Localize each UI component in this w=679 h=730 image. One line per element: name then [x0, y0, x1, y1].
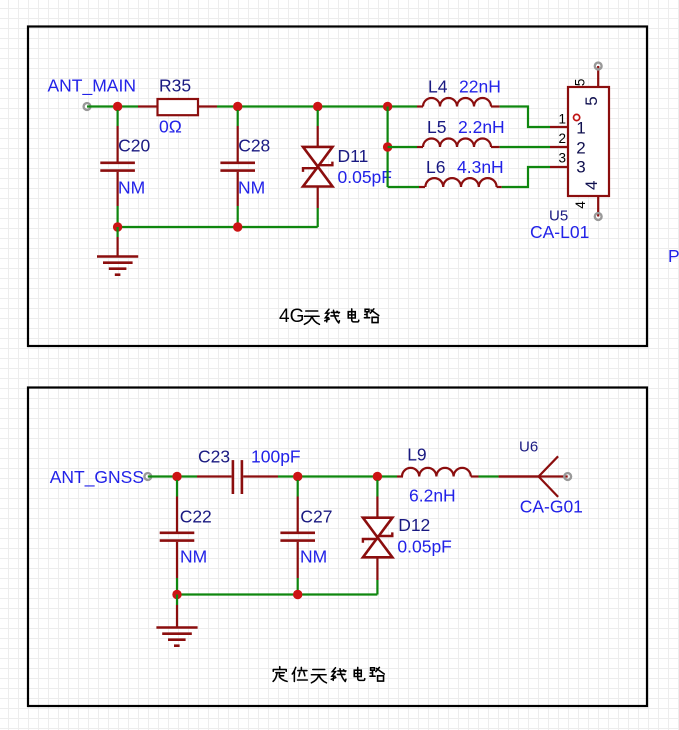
junction node ANT_GNSS/C22: [172, 472, 181, 481]
svg-text:D12: D12: [398, 515, 430, 535]
wire lead into R35: [138, 105, 158, 107]
svg-text:4: 4: [582, 181, 601, 190]
svg-text:C20: C20: [118, 136, 150, 156]
svg-text:L4: L4: [428, 77, 448, 97]
svg-text:5: 5: [573, 79, 588, 87]
U5 pin 4 stub: [597, 196, 599, 217]
ground symbol (top circuit): [97, 227, 138, 275]
svg-text:C28: C28: [238, 136, 270, 156]
wire ground rail (top circuit): [118, 226, 318, 228]
junction node at L5/L6 branch: [383, 102, 392, 111]
junction node rail/C22: [172, 590, 181, 599]
svg-text:5: 5: [582, 96, 601, 105]
pin 1 marker circle: [574, 114, 580, 120]
svg-text:2.2nH: 2.2nH: [458, 117, 505, 137]
diode D11 (TVS): [303, 110, 333, 227]
svg-text:2: 2: [576, 139, 585, 158]
title: positioning antenna circuit: [273, 667, 384, 683]
svg-text:R35: R35: [159, 76, 191, 96]
wire to L6: [388, 186, 419, 188]
svg-text:C27: C27: [300, 507, 332, 527]
svg-text:3: 3: [576, 158, 585, 177]
U5 pin 5 port dot: [595, 63, 602, 70]
junction node rail/C20: [113, 222, 122, 231]
IC U5 body: [568, 87, 609, 196]
inductor L4: [417, 98, 500, 106]
capacitor C27: [280, 480, 315, 595]
svg-text:P: P: [668, 246, 679, 266]
U6 port dot: [564, 473, 571, 480]
resistor R35: [158, 99, 199, 115]
inductor L6: [419, 178, 502, 187]
svg-text:1: 1: [576, 119, 585, 138]
svg-text:CA-L01: CA-L01: [530, 222, 589, 242]
inductor L9: [397, 468, 479, 477]
frame box 1: 4G antenna circuit: [28, 27, 647, 347]
U5 pin 1 stub: [550, 126, 568, 128]
svg-text:L6: L6: [426, 157, 445, 177]
svg-text:22nH: 22nH: [459, 77, 501, 97]
wire R35 to L4 lead: [217, 105, 417, 107]
capacitor C20: [100, 110, 135, 227]
svg-text:0.05pF: 0.05pF: [397, 537, 451, 557]
U5 pin 5 stub: [597, 66, 599, 87]
junction node L5 branch: [383, 142, 392, 151]
antenna U6: [499, 456, 568, 497]
svg-text:L9: L9: [407, 445, 426, 465]
svg-text:NM: NM: [118, 177, 145, 197]
svg-text:ANT_GNSS: ANT_GNSS: [50, 467, 144, 488]
svg-text:ANT_MAIN: ANT_MAIN: [48, 76, 136, 97]
svg-text:U6: U6: [519, 439, 538, 456]
wire L4 to U5 pin1: [500, 107, 550, 128]
inductor L5: [417, 139, 500, 148]
svg-text:6.2nH: 6.2nH: [409, 486, 456, 506]
pin port ANT_MAIN: [84, 103, 91, 110]
wire node to C23: [177, 475, 197, 477]
svg-text:4: 4: [573, 201, 588, 209]
svg-text:0.05pF: 0.05pF: [338, 167, 392, 187]
title: 4G antenna circuit: [279, 306, 379, 327]
junction node rail/C28: [233, 222, 242, 231]
ground symbol (bottom circuit): [156, 595, 197, 646]
capacitor C28: [220, 110, 255, 227]
svg-text:100pF: 100pF: [251, 447, 301, 467]
wire ANT_MAIN to R35: [87, 105, 138, 107]
capacitor C22: [160, 480, 195, 595]
wire L9 to U6: [479, 475, 499, 477]
U5 pin 3 stub: [550, 166, 568, 168]
svg-text:D11: D11: [338, 146, 369, 166]
svg-text:NM: NM: [238, 177, 265, 197]
svg-text:4G: 4G: [279, 306, 304, 327]
wire L5 to U5 pin2: [500, 146, 550, 148]
svg-text:2: 2: [558, 131, 566, 146]
capacitor C23: [197, 460, 278, 494]
junction node at D11: [313, 102, 322, 111]
U5 pin 4 port dot: [595, 213, 602, 220]
svg-text:4.3nH: 4.3nH: [457, 157, 504, 177]
frame box 2: positioning antenna circuit: [28, 388, 647, 707]
wire C23 to L9: [278, 475, 397, 477]
svg-text:1: 1: [558, 112, 566, 127]
wire ANT_GNSS to C22 node: [148, 475, 177, 477]
svg-text:NM: NM: [180, 547, 207, 567]
wire L6 to U5 pin3: [502, 167, 550, 187]
U5 pin 2 stub: [550, 146, 568, 148]
svg-text:C23: C23: [198, 447, 230, 467]
svg-text:0Ω: 0Ω: [159, 117, 182, 137]
pin port ANT_GNSS: [144, 473, 151, 480]
wire branch down to L5/L6: [387, 107, 389, 188]
svg-text:3: 3: [558, 151, 566, 166]
wire ground rail (bottom circuit): [177, 593, 377, 595]
wire to L5: [388, 146, 417, 148]
junction node at C20: [113, 102, 122, 111]
diode D12 (TVS): [363, 480, 393, 595]
svg-text:L5: L5: [427, 117, 446, 137]
wire lead out of R35: [199, 105, 217, 107]
junction node at C28: [233, 102, 242, 111]
svg-text:C22: C22: [180, 507, 212, 527]
junction node C27: [293, 472, 302, 481]
svg-text:NM: NM: [300, 547, 327, 567]
junction node rail/C27: [293, 590, 302, 599]
junction node D12: [373, 472, 382, 481]
svg-text:CA-G01: CA-G01: [520, 497, 583, 517]
